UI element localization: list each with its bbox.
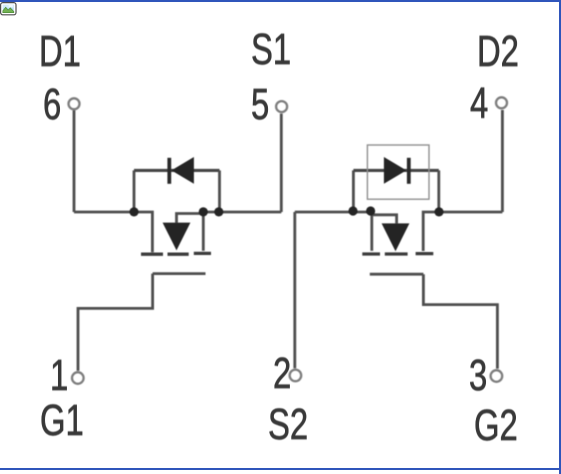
top blue frame border [0,0,561,2]
wire diode loop top Q2 [353,169,438,172]
junction dots Q1 [129,206,443,216]
right blue frame border [559,0,561,474]
wire drain rail Q1 [74,212,152,252]
wire source connector + body stub Q1 [177,214,204,223]
wire diode loop right leg Q2 [437,170,440,212]
wire source rail Q2 [295,211,371,214]
label S1 [251,28,291,72]
junction dot Q2 source/diode [348,206,357,215]
wire gate bar Q1 [153,272,206,275]
pin 2 terminal [290,370,302,382]
label S2 [268,403,308,447]
channel bar left Q1 [141,253,163,256]
junction dot Q1 drain/diode [129,207,138,216]
pin number 4 [470,82,488,126]
diode Q2 cathode bar [407,158,411,184]
wire source rail Q1 [203,211,281,214]
body arrow Q2 [382,223,410,251]
label D1 [39,30,81,74]
wire pin4 D2 lead [501,110,504,212]
junction dot Q2 source/stub [366,206,375,215]
wire diode loop left leg Q2 [352,170,355,212]
wire source channel stub Q1 [202,212,205,251]
junction dot Q1 source/diode [214,207,223,216]
channel bar right Q2 [416,252,434,255]
wire drain rail Q2 [423,212,502,251]
wire gate step to pin1 [78,274,153,371]
body diode D of Q2 (points right), boxed [367,145,429,199]
label G2 [474,404,518,448]
body arrow Q1 [163,223,191,251]
pin number 1 [50,354,68,398]
broken-image placeholder icon [0,2,17,16]
pin 4 terminal [496,97,507,108]
pin number 3 [469,354,487,398]
pin 3 terminal [491,370,503,382]
pin 6 terminal [69,98,80,109]
wire gate step to pin3 [423,274,497,368]
channel bars [141,252,433,256]
pin number 6 [43,83,61,127]
diode Q1 cathode bar [167,158,171,184]
label G1 [40,399,84,443]
channel bar middle Q1 [168,253,189,256]
wire pin6 D1 lead [73,111,76,213]
wire diode loop top Q1 [134,169,220,172]
wire pin5 S1 lead [280,114,283,212]
junction dot Q2 drain/diode [434,207,443,216]
diode Q1 triangle [171,157,194,184]
pin 1 terminal [72,372,84,384]
channel bar middle Q2 [385,252,408,255]
body diode D of Q1 (points left) [169,157,194,184]
wire diode loop right leg Q1 [218,170,221,212]
bottom blue frame border [0,468,561,470]
channel bar left Q2 [362,252,380,255]
label D2 [477,30,519,74]
pin 5 terminal [276,101,287,112]
pin number 5 [251,83,269,127]
wire diode loop left leg Q1 [133,170,136,212]
pin terminal circles [69,97,508,384]
diode Q2 triangle [384,157,407,184]
wire body connector + stub Q2 [371,215,397,224]
pin number 2 [273,352,291,396]
junction dot Q1 source/stub [199,207,208,216]
highlight box around diode Q2 [367,145,429,199]
wire pin2 S2 lead [293,212,296,368]
wire gate bar Q2 [370,273,424,276]
wire source channel stub Q2 [370,212,373,251]
channel bar right Q1 [194,252,211,255]
